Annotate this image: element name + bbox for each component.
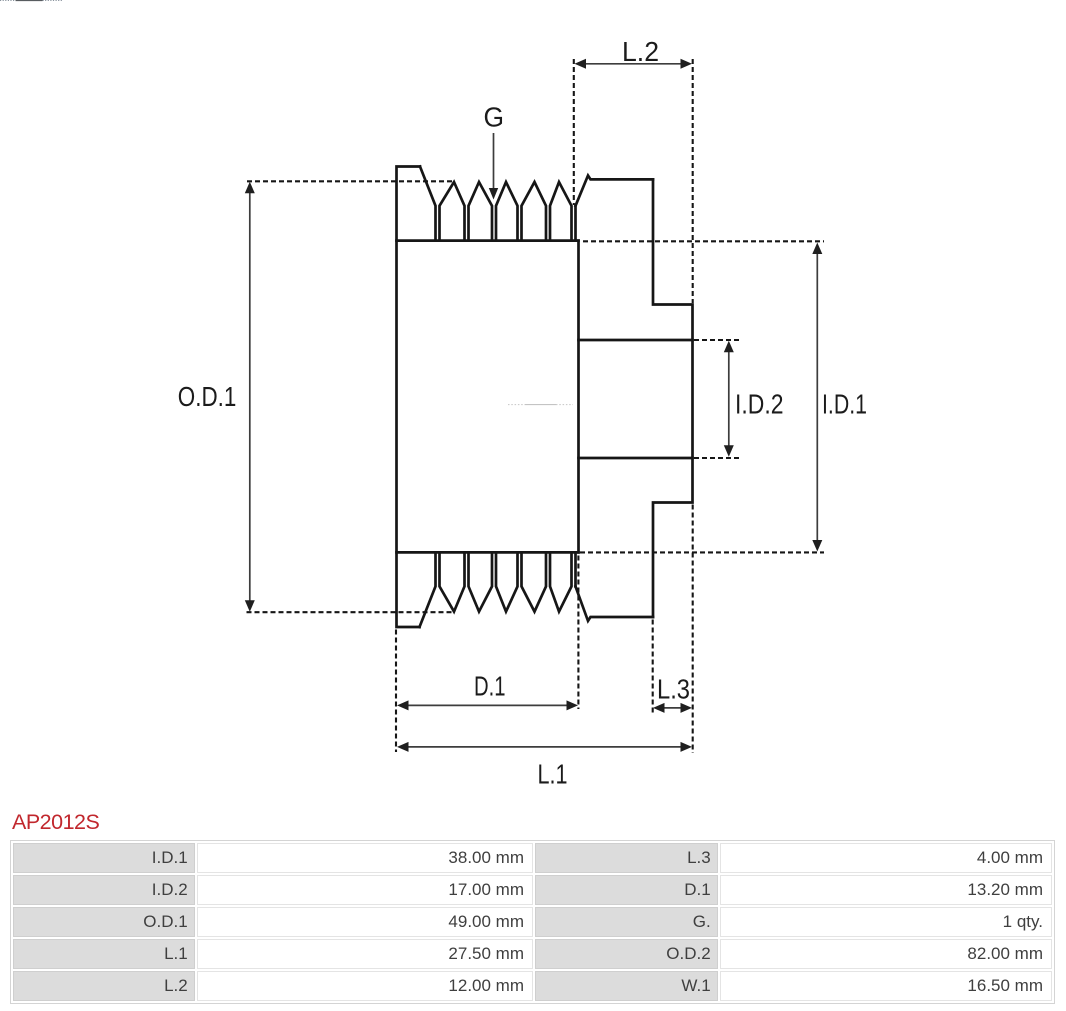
svg-text:L.2: L.2 <box>622 36 659 67</box>
L.2 dimension line <box>584 63 682 65</box>
G leader arrowhead <box>489 188 498 200</box>
L.1 extension line right lower <box>692 505 694 754</box>
svg-text:G: G <box>484 101 505 132</box>
I.D.1 extension line bottom <box>580 551 824 553</box>
L.3 dimension line <box>661 707 683 709</box>
bottom poly-V belt teeth <box>440 552 576 611</box>
L.3 arrowheads <box>653 703 665 713</box>
O.D.1 arrowheads <box>245 182 255 194</box>
top transition from last groove to hub surface <box>576 176 654 206</box>
faint axis centerline inside body <box>508 404 525 406</box>
L.2 extension line left <box>573 59 575 205</box>
svg-text:I.D.2: I.D.2 <box>735 389 784 420</box>
top-left step diagonal into first groove <box>420 167 436 241</box>
I.D.2 extension line bottom <box>694 457 741 459</box>
I.D.2 extension line top <box>694 339 741 341</box>
svg-text:I.D.1: I.D.1 <box>822 389 867 420</box>
specification table <box>10 840 1055 1004</box>
svg-text:L.1: L.1 <box>538 759 568 790</box>
I.D.1 extension line top <box>583 240 824 242</box>
O.D.1 extension line top <box>247 180 454 182</box>
bore top edge <box>579 339 693 342</box>
bottom-left step diagonal into first groove <box>420 552 436 627</box>
groove root line top <box>397 239 579 242</box>
I.D.1 dimension line <box>816 252 818 542</box>
I.D.1 arrowheads <box>812 243 822 255</box>
hub right stepped profile <box>653 179 693 617</box>
L.1 / D.1 extension line left <box>395 630 397 753</box>
L.1 dimension line <box>406 746 683 748</box>
D.1 arrowheads <box>397 700 409 710</box>
cropped centerline artifact at very top-left <box>0 0 16 2</box>
part number heading <box>12 810 99 835</box>
L.3 extension line left <box>652 620 654 714</box>
groove root line bottom <box>397 551 579 554</box>
D.1 dimension line <box>406 704 569 706</box>
I.D.2 dimension line <box>728 350 730 448</box>
G leader line <box>493 133 495 190</box>
bottom transition from last groove to hub surface <box>576 586 654 621</box>
D.1 extension line right <box>577 556 579 710</box>
L.2 arrowheads <box>575 59 587 69</box>
L.1 arrowheads <box>397 742 409 752</box>
O.D.1 dimension line <box>249 192 251 602</box>
bore bottom edge <box>579 457 693 460</box>
svg-text:O.D.1: O.D.1 <box>178 381 237 412</box>
pulley body right edge <box>577 241 580 553</box>
top poly-V belt teeth <box>440 182 576 241</box>
I.D.2 arrowheads <box>724 341 734 353</box>
pulley left flange face (left vertical edge with top/bottom steps) <box>397 167 421 628</box>
svg-text:D.1: D.1 <box>474 671 506 702</box>
O.D.1 extension line bottom <box>247 611 452 613</box>
svg-text:L.3: L.3 <box>657 674 690 705</box>
L.2 extension line right upper <box>692 59 694 303</box>
